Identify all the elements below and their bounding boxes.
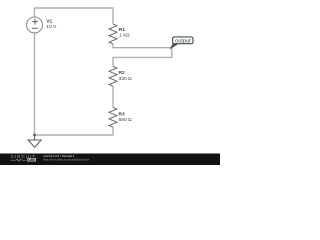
svg-text:R1: R1 [119, 27, 126, 33]
svg-text:http://circuitlab.com/cad/jkdt: http://circuitlab.com/cad/jkdtkyhue [43, 158, 90, 162]
svg-text:R3: R3 [119, 111, 126, 117]
svg-text:330 Ω: 330 Ω [119, 76, 133, 82]
svg-text:LAB: LAB [28, 158, 35, 162]
svg-text:10 V: 10 V [46, 24, 57, 30]
svg-text:R2: R2 [119, 70, 126, 76]
svg-text:680 Ω: 680 Ω [119, 117, 133, 123]
svg-text:1 kΩ: 1 kΩ [119, 33, 130, 39]
svg-text:output: output [175, 39, 191, 45]
svg-text:V1: V1 [46, 18, 52, 24]
